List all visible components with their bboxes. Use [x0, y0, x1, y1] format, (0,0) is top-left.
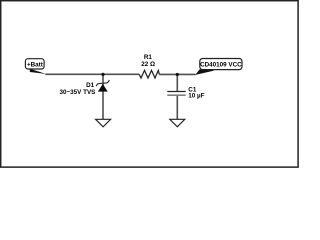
node junction dot at D1 — [101, 73, 104, 76]
CD40109 VCC flag tail — [195, 69, 213, 75]
diode D1 zener cathode bar — [96, 80, 109, 86]
capacitor C1 bottom plate — [167, 94, 185, 96]
svg-text:+Batt: +Batt — [27, 62, 44, 69]
diode D1 triangle — [98, 84, 108, 92]
+Batt flag tail — [30, 69, 46, 74]
border frame (decorative) — [1, 1, 298, 167]
wire capacitor branch upper — [176, 74, 178, 91]
wire main horizontal right segment — [159, 73, 195, 75]
svg-text:10 µF: 10 µF — [188, 93, 204, 100]
wire main horizontal left segment — [45, 73, 139, 75]
wire diode branch vertical — [102, 74, 104, 119]
ground symbol under D1 — [96, 119, 111, 127]
svg-text:CD40109 VCC: CD40109 VCC — [200, 62, 242, 69]
+Batt flag box — [25, 59, 44, 69]
capacitor C1 top plate — [167, 91, 185, 93]
svg-text:30~35V TVS: 30~35V TVS — [60, 89, 96, 96]
svg-text:22 Ω: 22 Ω — [141, 61, 155, 68]
node junction dot at C1 — [176, 73, 179, 76]
resistor R1 zigzag — [139, 70, 159, 78]
wire capacitor branch lower — [176, 96, 178, 120]
CD40109 VCC flag box — [200, 59, 242, 70]
ground symbol under C1 — [170, 119, 185, 127]
